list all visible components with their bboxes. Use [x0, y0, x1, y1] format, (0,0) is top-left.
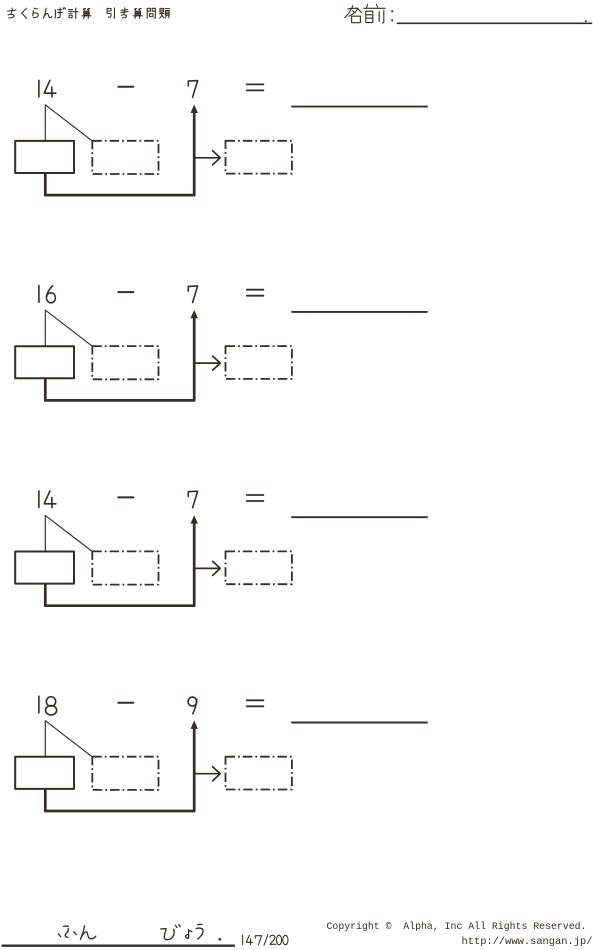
svg-text:Copyright © Alpha, Inc All Ri: Copyright © Alpha, Inc All Rights Reserv… [327, 921, 587, 932]
svg-text:http://www.sangan.jp/: http://www.sangan.jp/ [462, 936, 593, 948]
